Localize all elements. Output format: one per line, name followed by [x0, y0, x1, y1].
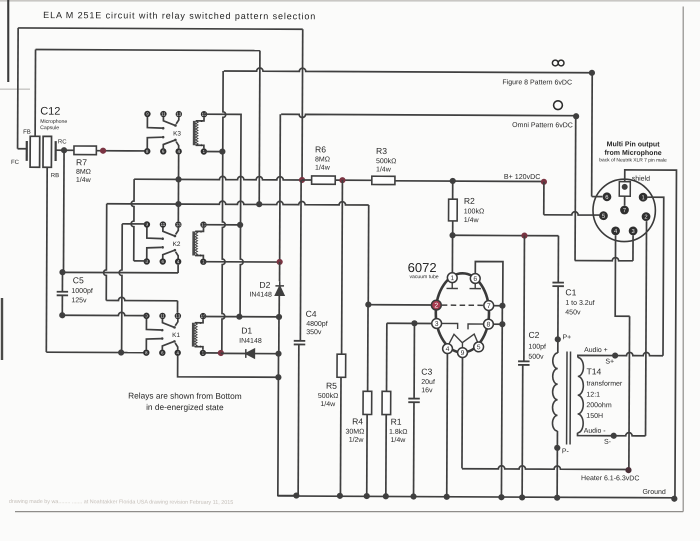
node gnd C3 [410, 493, 416, 499]
svg-text:R1: R1 [391, 417, 402, 427]
svg-text:500v: 500v [528, 354, 544, 361]
R4 bottom lead [366, 414, 368, 496]
node C3 tap [411, 320, 417, 326]
resistor R3 [372, 176, 395, 184]
capsule RB drop [45, 167, 48, 352]
R2 top lead [452, 181, 454, 199]
K2p9/K1p8 link drop [119, 224, 122, 353]
C5 top wire to K2 pin4 [62, 271, 178, 274]
C2 top lead [523, 236, 526, 362]
node pin7 junction [499, 303, 505, 309]
svg-text:-: - [200, 230, 202, 236]
wire B right drop to pattern bus [258, 51, 261, 205]
wire A right column down to R6 left [301, 29, 304, 180]
tube pin 5 [474, 342, 484, 352]
svg-text:1/4w: 1/4w [376, 166, 392, 173]
tube pin 6 [470, 274, 480, 284]
XLR pin 4 [611, 226, 620, 235]
tube pin 8 [484, 319, 494, 329]
svg-text:1/4w: 1/4w [390, 437, 406, 444]
svg-text:4: 4 [446, 346, 450, 353]
capsule FC lead [18, 148, 27, 150]
plate node wire [453, 234, 559, 236]
relay K3 [144, 111, 150, 117]
svg-text:RB: RB [51, 173, 59, 179]
svg-text:Relays are shown from Bottom: Relays are shown from Bottom [128, 390, 242, 401]
svg-text:C2: C2 [528, 330, 539, 340]
node P- terminal [554, 445, 560, 451]
omni wire to pin3 [575, 257, 633, 260]
C2 bottom lead [521, 365, 524, 498]
tube pin 4 [443, 344, 453, 354]
svg-text:11: 11 [160, 313, 165, 318]
svg-text:in de-energized state: in de-energized state [146, 402, 224, 412]
wire R6 leads [302, 179, 312, 181]
node K2 pin1/D2 (maroon) [277, 259, 283, 265]
svg-text:6: 6 [473, 276, 477, 283]
svg-text:500kΩ: 500kΩ [318, 393, 338, 400]
node gnd pin678 [498, 494, 504, 500]
svg-text:7: 7 [623, 208, 626, 214]
svg-text:200ohm: 200ohm [586, 402, 611, 409]
XLR pin3 stub down [632, 235, 634, 260]
node P+ terminal [555, 336, 561, 342]
B+ wire [395, 180, 544, 183]
node K1 pin16 junction [236, 314, 242, 320]
node K3 pin1 junction [219, 148, 225, 154]
resistor R2 [449, 199, 458, 221]
K2 pin9 feed corner [122, 223, 147, 225]
tube plate pin6 symbol [470, 278, 481, 288]
D chain vertical 2 [278, 317, 280, 354]
wire to K1 pin13 [106, 297, 177, 301]
D2 lower lead [278, 295, 280, 317]
svg-text:C1: C1 [565, 287, 576, 297]
svg-text:1/4w: 1/4w [76, 177, 92, 184]
plate node corner to C1 [557, 236, 559, 282]
node gnd R4 [364, 493, 370, 499]
svg-text:C5: C5 [73, 275, 84, 285]
node gnd C2 [519, 494, 525, 500]
svg-text:T14: T14 [587, 366, 602, 376]
wire K2 pin16 stub [204, 224, 241, 226]
capsule C12 diaphragm FB [30, 136, 40, 167]
wire B top (FB to pattern bus) [36, 50, 260, 51]
node K1 pin1 junction (maroon) [218, 350, 224, 356]
node S+ terminal [612, 352, 618, 358]
audio+ wire to pin1 column [615, 352, 663, 355]
omni right drop toward XLR pin3 [574, 116, 577, 260]
bus205 drop to grid node [367, 205, 369, 305]
svg-text:6: 6 [605, 195, 608, 201]
C3 top lead [413, 323, 415, 398]
svg-text:back of Neutrik XLR 7 pin male: back of Neutrik XLR 7 pin male [599, 157, 667, 163]
node RB/K1p8 junction [118, 349, 124, 355]
svg-text:150H: 150H [586, 413, 603, 420]
relay16 bus drop [240, 114, 244, 316]
svg-text:IN4148: IN4148 [249, 292, 272, 299]
capsule C12 front plate FC [26, 141, 28, 161]
svg-text:450v: 450v [565, 309, 581, 316]
resistor R5 [337, 354, 346, 377]
svg-text:R2: R2 [464, 196, 475, 206]
pin1 plate lead [451, 235, 453, 272]
svg-text:8MΩ: 8MΩ [315, 156, 330, 163]
svg-text:2: 2 [644, 215, 647, 221]
svg-text:1.8kΩ: 1.8kΩ [389, 429, 408, 436]
svg-text:Audio -: Audio - [584, 428, 606, 435]
svg-text:vacuum tube: vacuum tube [409, 274, 438, 280]
pin3 wire [387, 322, 432, 324]
svg-text:-: - [200, 321, 202, 327]
node K2 pin16 junction [237, 222, 243, 228]
tube pin 7 [484, 301, 494, 311]
C4 lead bottom [297, 345, 300, 496]
XLR pin4 heater drop [615, 235, 630, 316]
svg-text:5: 5 [477, 344, 481, 351]
svg-text:Figure 8 Pattern 6vDC: Figure 8 Pattern 6vDC [502, 79, 572, 86]
capsule C12 rear plate RC [55, 141, 57, 161]
K1 pin13 feed drop [176, 301, 178, 313]
tube pin 3 [432, 319, 442, 329]
XLR pin7 stub [624, 196, 626, 205]
node gnd C4 [293, 492, 299, 498]
svg-text:1/4w: 1/4w [464, 217, 480, 224]
svg-text:FB: FB [23, 130, 31, 136]
tube grid pin8 symbol [468, 324, 483, 329]
node heater terminal [625, 467, 631, 473]
resistor R7 [74, 146, 96, 155]
svg-text:R7: R7 [76, 157, 87, 167]
C3 bottom lead [413, 403, 415, 497]
svg-text:Multi Pin output: Multi Pin output [607, 141, 661, 148]
figure-8 symbol [552, 60, 564, 66]
svg-text:100kΩ: 100kΩ [464, 208, 484, 215]
svg-text:+: + [200, 143, 203, 149]
wire R6 to R3 [335, 179, 372, 181]
svg-text:C12: C12 [40, 106, 60, 118]
svg-text:1000pf: 1000pf [71, 288, 92, 295]
pin2 grid wire [368, 304, 431, 306]
wire K1 pin16 to D chain [203, 316, 279, 318]
svg-text:7: 7 [487, 303, 491, 310]
T14 primary lead top [557, 339, 559, 353]
T14 secondary winding [578, 358, 584, 433]
scan edge top [0, 0, 700, 2]
svg-text:RC: RC [58, 139, 67, 145]
svg-text:from Microphone: from Microphone [604, 150, 661, 157]
terminal dot figure-8 [589, 70, 595, 76]
scan artifact tick [0, 89, 30, 90]
shield ground wire [623, 170, 676, 499]
capacitor C3 [408, 399, 420, 403]
node K1 pin4/D chain junction [275, 374, 281, 380]
diode D1 [246, 349, 255, 358]
XLR pin2 drop [646, 221, 647, 436]
scan artifact left top [7, 0, 9, 82]
resistor R1 [382, 391, 391, 414]
node bus180/p4 junction [175, 176, 181, 182]
wire RB to K1 pin8 [46, 351, 146, 353]
node gnd P- [554, 495, 560, 501]
T14 secondary bottom lead [578, 433, 614, 436]
R5 bottom lead [339, 377, 342, 496]
svg-text:B+ 120vDC: B+ 120vDC [504, 173, 541, 181]
wire K3 pin16 to corner [204, 113, 241, 116]
svg-text:4800pf: 4800pf [306, 321, 327, 328]
node S- terminal [611, 433, 617, 439]
node gnd R5 [337, 493, 343, 499]
svg-text:+: + [199, 253, 202, 259]
svg-text:+: + [199, 344, 202, 350]
capacitor C2 [518, 361, 530, 365]
XLR shield dot [622, 184, 628, 190]
svg-text:1/4w: 1/4w [315, 165, 331, 172]
svg-text:C4: C4 [306, 309, 317, 319]
svg-text:R3: R3 [376, 146, 387, 156]
node RC junction [61, 147, 67, 153]
C5 bottom lead [61, 295, 63, 315]
node R2 bottom junction [449, 232, 455, 238]
node bus205/FB junction [256, 201, 262, 207]
C4 lead top [299, 180, 302, 341]
svg-text:500kΩ: 500kΩ [376, 158, 396, 165]
svg-text:D2: D2 [259, 280, 270, 290]
svg-text:shield: shield [632, 176, 650, 183]
border frame bottom [15, 511, 683, 513]
D1 right lead [254, 353, 278, 355]
svg-text:K3: K3 [173, 130, 181, 137]
XLR pin1 wire right [647, 197, 664, 356]
svg-text:5: 5 [602, 214, 605, 220]
XLR pin 1 [639, 193, 648, 202]
scan artifact left mid [1, 298, 3, 360]
XLR pin 2 [642, 212, 651, 221]
svg-text:1: 1 [450, 275, 454, 282]
svg-text:13: 13 [176, 222, 181, 227]
svg-text:R4: R4 [352, 416, 363, 426]
T14 primary winding [552, 353, 557, 431]
figure-8 left drop (relay column) [222, 71, 226, 353]
wire to K2 pin8 [134, 260, 147, 262]
P- ground drop [556, 448, 558, 498]
node R7 right (maroon) [100, 148, 106, 154]
wire B left drop to capsule FB [34, 50, 36, 137]
audio- wire to pin2 column [614, 433, 646, 436]
svg-text:Capsule: Capsule [40, 125, 59, 131]
svg-text:-: - [200, 119, 202, 125]
wire A top (FC to R6/C4 column) [18, 28, 303, 29]
XLR pin 7 [620, 206, 629, 215]
XLR pin 5 [599, 211, 608, 220]
pin4 ground drop [446, 354, 449, 497]
svg-text:30MΩ: 30MΩ [346, 429, 365, 436]
node R6 left (maroon) [299, 177, 305, 183]
svg-text:1/4w: 1/4w [320, 401, 336, 408]
T14 core [567, 352, 571, 445]
svg-text:12:1: 12:1 [586, 392, 600, 399]
svg-text:1/2w: 1/2w [349, 437, 365, 444]
D chain to ground [278, 354, 297, 496]
tube heater symbol [448, 334, 479, 348]
R5 top lead [341, 180, 344, 354]
wire RC node to R7 [64, 149, 74, 151]
svg-text:Ground: Ground [642, 489, 665, 496]
terminal dot omni [573, 113, 579, 119]
svg-text:11: 11 [161, 112, 166, 117]
figure-8 pattern wire [224, 68, 592, 73]
tube grid dashed line [442, 304, 483, 306]
R1 top lead [386, 323, 388, 391]
R1 bottom lead [385, 415, 387, 497]
B+ jog to XLR pin5 [543, 182, 545, 215]
svg-text:3: 3 [631, 229, 634, 235]
wire K2 pin1 to D2 node [203, 261, 279, 263]
node grid/R4 junction [365, 301, 371, 307]
XLR pin 6 [603, 192, 612, 201]
tube pin 1 [447, 273, 457, 283]
relay K2 [144, 221, 150, 227]
svg-text:D1: D1 [241, 325, 252, 335]
pin678 ground drop [500, 306, 503, 498]
svg-text:8: 8 [487, 322, 491, 329]
resistor R4 [363, 391, 372, 414]
omni pattern wire [281, 114, 576, 119]
node C2 tap (maroon) [521, 233, 527, 239]
tube pin 2 (red) [431, 300, 441, 310]
XLR pin4 heater drop 2 [628, 316, 631, 470]
C5 bottom wire to K1 pin9 [62, 312, 146, 316]
node C5 top [59, 269, 65, 275]
relay K1 [143, 313, 149, 319]
svg-text:Microphone: Microphone [40, 119, 67, 125]
svg-text:C3: C3 [421, 367, 432, 377]
capacitor C1 [552, 283, 564, 287]
ground rail [278, 496, 674, 498]
svg-text:125v: 125v [71, 297, 87, 304]
wire K1 pin4 down and right [178, 356, 279, 377]
svg-text:13: 13 [175, 313, 180, 318]
K3p4/K2p13 link [177, 155, 179, 222]
node D1 junction [275, 351, 281, 357]
XLR pin6 wire [592, 196, 603, 198]
svg-text:100pf: 100pf [528, 344, 546, 351]
T14 primary lead bottom [556, 431, 558, 448]
R2 bottom lead [452, 221, 454, 235]
figure-8 drop to XLR pin6 [591, 73, 594, 197]
svg-text:Heater 6.1-6.3vDC: Heater 6.1-6.3vDC [581, 475, 639, 482]
K2 pin4 drop [177, 265, 179, 273]
C5 top lead [61, 272, 63, 291]
pin8 lead [493, 323, 502, 325]
svg-text:8MΩ: 8MΩ [76, 169, 91, 176]
svg-text:drawing made by wa........ ...: drawing made by wa........ ....... at No… [9, 499, 233, 506]
capacitor C5 [57, 292, 68, 296]
wire K3 pin1 to fig8 column [204, 151, 223, 153]
pin7 lead [494, 305, 503, 307]
svg-text:6072: 6072 [408, 260, 437, 275]
svg-text:IN4148: IN4148 [239, 338, 262, 345]
diode D2 [275, 281, 284, 295]
svg-text:S-: S- [604, 439, 612, 446]
bus180 left drop to K2 pin8 [131, 179, 134, 261]
node gnd shield terminal [671, 496, 677, 502]
border frame right [682, 7, 684, 512]
wire K1p1 node to D1 [221, 352, 246, 354]
resistor R6 [312, 176, 336, 184]
D chain vertical [279, 262, 281, 281]
node C5 bottom [59, 312, 65, 318]
svg-text:P+: P+ [562, 334, 571, 341]
svg-text:9: 9 [461, 350, 465, 357]
node gnd pin4 [444, 494, 450, 500]
capsule C12 backplate RB [43, 136, 52, 167]
svg-text:2: 2 [434, 302, 438, 309]
svg-text:20uf: 20uf [421, 379, 435, 386]
svg-text:11: 11 [161, 222, 166, 227]
svg-text:K1: K1 [172, 332, 180, 339]
svg-text:13: 13 [176, 112, 181, 117]
svg-text:350v: 350v [306, 329, 322, 336]
bus180 wire [134, 176, 302, 180]
svg-text:transformer: transformer [586, 381, 622, 388]
node bus205/p4 junction [175, 201, 181, 207]
svg-text:FC: FC [11, 160, 20, 166]
omni symbol [554, 101, 563, 110]
node gnd R1 [383, 493, 389, 499]
svg-text:3: 3 [435, 321, 439, 328]
pin9 heater drop [461, 358, 464, 469]
C1 bottom lead [557, 286, 559, 339]
node B+ terminal (maroon) [541, 179, 547, 185]
bus205 wire [107, 201, 369, 205]
pin6 loop [475, 261, 503, 305]
XLR shell [593, 179, 656, 242]
svg-text:Audio +: Audio + [584, 347, 608, 354]
svg-text:1: 1 [642, 195, 645, 201]
node K1 pin16/D2 junction [276, 314, 282, 320]
tube grid pin3 symbol [441, 323, 457, 329]
wire RC node down to C5 [62, 150, 65, 272]
B+ jog wire [544, 212, 600, 215]
svg-text:1 to 3.2uf: 1 to 3.2uf [565, 300, 594, 307]
wire K1 pin1 to column [203, 352, 221, 354]
svg-text:R5: R5 [326, 381, 337, 391]
svg-text:ELA M 251E circuit with relay: ELA M 251E circuit with relay switched p… [43, 10, 316, 21]
node R6 right (maroon) [339, 177, 345, 183]
node pin8 junction [499, 321, 505, 327]
R4 top lead [367, 305, 369, 392]
tube pin 9 [458, 348, 468, 358]
T14 secondary top lead [578, 355, 615, 357]
omni drop to relay D-chain [279, 114, 282, 262]
bus205 left drop to K1 pin13 [103, 204, 106, 301]
XLR shield box [619, 182, 630, 197]
heater wire [462, 466, 629, 470]
svg-text:Omni Pattern 6vDC: Omni Pattern 6vDC [512, 122, 573, 129]
capacitor C4 [294, 341, 306, 345]
XLR pin 3 [629, 227, 638, 236]
wire R7 to K3 pin8 [96, 150, 147, 152]
svg-text:K2: K2 [173, 241, 181, 248]
wire A left drop to capsule FC [17, 28, 20, 149]
capsule RC lead [56, 149, 64, 151]
svg-text:R6: R6 [315, 144, 326, 154]
svg-text:P-: P- [562, 448, 569, 455]
tube envelope [436, 273, 490, 352]
svg-text:16v: 16v [421, 387, 433, 394]
node R2 top junction [450, 178, 456, 184]
